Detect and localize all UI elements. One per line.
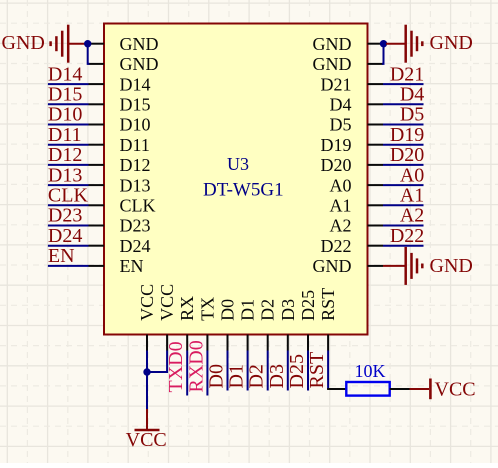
svg-text:D22: D22: [390, 225, 424, 247]
pin D15 (left 4): [89, 95, 151, 115]
svg-text:D25: D25: [286, 354, 308, 388]
wire net D10 (left): [48, 124, 89, 126]
pin D11 (left 6): [89, 135, 150, 155]
svg-text:D13: D13: [48, 164, 82, 186]
svg-text:GND: GND: [313, 34, 352, 54]
svg-text:GND: GND: [120, 54, 159, 74]
wire net D11 (left): [48, 144, 89, 146]
svg-text:D1: D1: [238, 299, 258, 321]
svg-text:RXD0: RXD0: [185, 340, 207, 392]
wire net A1 (right): [383, 204, 424, 206]
svg-text:D24: D24: [48, 225, 82, 247]
junction GND right: [380, 40, 387, 47]
svg-text:U3: U3: [227, 154, 249, 174]
svg-text:D1: D1: [226, 364, 248, 388]
svg-text:D3: D3: [278, 299, 298, 321]
IC U3 body: [104, 24, 368, 335]
ground symbol bottom right: [406, 247, 473, 285]
svg-text:GND: GND: [430, 255, 473, 277]
resistor pin right: [390, 388, 410, 390]
pin D4 (right 4): [330, 95, 384, 115]
pin RX (bottom 3): [177, 296, 197, 351]
svg-text:D23: D23: [120, 216, 151, 236]
svg-text:D0: D0: [206, 364, 228, 388]
svg-text:EN: EN: [120, 256, 144, 276]
svg-text:VCC: VCC: [126, 429, 167, 451]
wire VCC2 elbow: [147, 351, 167, 373]
svg-text:D4: D4: [330, 95, 352, 115]
ground symbol top right: [406, 25, 473, 63]
junction GND left: [84, 40, 91, 47]
wire net RST (bottom): [327, 351, 329, 390]
pin D13 (left 8): [89, 175, 151, 195]
svg-text:D20: D20: [390, 144, 424, 166]
svg-text:A0: A0: [400, 164, 424, 186]
svg-text:D21: D21: [390, 63, 424, 85]
pin D23 (left 10): [89, 216, 151, 236]
svg-text:D0: D0: [218, 299, 238, 321]
pin A0 (right 8): [330, 175, 384, 195]
pin TX (bottom 4): [197, 297, 217, 351]
svg-text:D15: D15: [48, 84, 82, 106]
svg-text:D2: D2: [246, 364, 268, 388]
svg-text:A2: A2: [330, 216, 352, 236]
wire net A0 (right): [383, 184, 424, 186]
svg-text:D22: D22: [321, 236, 352, 256]
svg-text:CLK: CLK: [48, 185, 89, 207]
pin D14 (left 3): [89, 74, 151, 94]
pin D3 (bottom 8): [278, 299, 298, 351]
wire net EN (left): [48, 265, 89, 267]
wire net D25 (bottom): [307, 351, 309, 391]
wire GND to symbol (maroon, bottom right): [383, 265, 405, 267]
wire net D14 (left): [48, 83, 89, 85]
wire net TXD0 (bottom): [186, 351, 188, 396]
wire net D2 (bottom): [267, 351, 269, 391]
pin D25 (bottom 9): [298, 290, 318, 351]
svg-text:EN: EN: [48, 245, 75, 267]
svg-text:D19: D19: [321, 135, 352, 155]
svg-text:VCC: VCC: [157, 284, 177, 321]
svg-text:TXD0: TXD0: [165, 341, 187, 392]
pin GND (right 2): [313, 54, 384, 74]
svg-text:D12: D12: [48, 144, 82, 166]
pin GND (right 1): [313, 34, 384, 54]
junction VCC: [143, 368, 150, 375]
pin D22 (right 11): [321, 236, 384, 256]
pin GND (left 1): [89, 34, 159, 54]
ground symbol left: [2, 25, 69, 63]
power symbol VCC (right): [410, 379, 476, 401]
wire GND2 elbow left: [88, 44, 90, 64]
wire net D4 (right): [383, 103, 424, 105]
pin D10 (left 5): [89, 115, 151, 135]
wire net D21 (right): [383, 83, 424, 85]
svg-text:D11: D11: [48, 124, 82, 146]
wire GND2 elbow right: [382, 44, 384, 64]
svg-text:A2: A2: [400, 205, 424, 227]
pin GND (left 2): [89, 54, 159, 74]
svg-text:D24: D24: [120, 236, 151, 256]
wire net D1 (bottom): [247, 351, 249, 391]
svg-text:10K: 10K: [355, 361, 386, 381]
svg-text:VCC: VCC: [137, 284, 157, 321]
svg-text:D10: D10: [120, 115, 151, 135]
svg-text:CLK: CLK: [120, 196, 156, 216]
wire net D22 (right): [383, 245, 424, 247]
svg-text:D2: D2: [258, 299, 278, 321]
resistor 10K body: [346, 382, 389, 396]
svg-text:D14: D14: [120, 74, 151, 94]
pin GND (right 12): [313, 256, 384, 276]
svg-text:D23: D23: [48, 205, 82, 227]
svg-text:D10: D10: [48, 104, 82, 126]
svg-text:D3: D3: [266, 364, 288, 388]
svg-text:GND: GND: [120, 34, 159, 54]
wire net D23 (left): [48, 225, 89, 227]
svg-text:TX: TX: [197, 297, 217, 321]
svg-text:D12: D12: [120, 155, 151, 175]
svg-text:D11: D11: [120, 135, 150, 155]
wire GND to symbol (maroon, top right): [386, 43, 405, 45]
svg-text:D20: D20: [321, 155, 352, 175]
svg-text:D19: D19: [390, 124, 424, 146]
pin D20 (right 7): [321, 155, 384, 175]
svg-text:A0: A0: [330, 175, 352, 195]
svg-text:D25: D25: [298, 290, 318, 321]
wire net D13 (left): [48, 184, 89, 186]
wire net D12 (left): [48, 164, 89, 166]
pin D19 (right 6): [321, 135, 384, 155]
power symbol VCC (bottom): [126, 409, 167, 451]
svg-text:A1: A1: [400, 185, 424, 207]
svg-text:GND: GND: [2, 32, 45, 54]
pin D12 (left 7): [89, 155, 151, 175]
pin CLK (left 9): [89, 196, 156, 216]
pin D24 (left 11): [89, 236, 151, 256]
svg-text:D13: D13: [120, 175, 151, 195]
pin VCC (bottom 2): [157, 284, 177, 351]
svg-text:D5: D5: [330, 115, 352, 135]
wire net CLK (left): [48, 204, 89, 206]
wire net D5 (right): [383, 124, 424, 126]
wire net D19 (right): [383, 144, 424, 146]
resistor pin left: [327, 388, 346, 390]
svg-text:DT-W5G1: DT-W5G1: [203, 180, 284, 201]
svg-text:RST: RST: [318, 288, 338, 321]
pin D5 (right 5): [330, 115, 384, 135]
pin VCC (bottom 1): [137, 284, 157, 351]
svg-text:A1: A1: [330, 196, 352, 216]
svg-text:GND: GND: [430, 32, 473, 54]
svg-text:D5: D5: [400, 104, 424, 126]
pin RST (bottom 10): [318, 288, 338, 351]
pin D1 (bottom 6): [238, 299, 258, 351]
svg-text:D21: D21: [321, 74, 352, 94]
pin A1 (right 9): [330, 196, 384, 216]
pin EN (left 12): [89, 256, 144, 276]
wire GND1 to junction (maroon): [69, 43, 85, 45]
wire net RXD0 (bottom): [206, 351, 208, 396]
pin D0 (bottom 5): [218, 299, 238, 351]
svg-text:VCC: VCC: [435, 379, 476, 401]
pin D2 (bottom 7): [258, 299, 278, 351]
wire net D3 (bottom): [287, 351, 289, 391]
svg-text:D14: D14: [48, 63, 82, 85]
svg-text:GND: GND: [313, 256, 352, 276]
wire net A2 (right): [383, 225, 424, 227]
svg-text:GND: GND: [313, 54, 352, 74]
pin A2 (right 10): [330, 216, 384, 236]
wire net D20 (right): [383, 164, 424, 166]
svg-text:RST: RST: [306, 352, 328, 389]
svg-text:RX: RX: [177, 296, 197, 321]
svg-text:D15: D15: [120, 95, 151, 115]
pin D21 (right 3): [321, 74, 384, 94]
svg-text:D4: D4: [400, 84, 424, 106]
wire net D0 (bottom): [227, 351, 229, 391]
wire net D15 (left): [48, 103, 89, 105]
wire net D24 (left): [48, 245, 89, 247]
wire VCC net vertical: [146, 351, 148, 410]
